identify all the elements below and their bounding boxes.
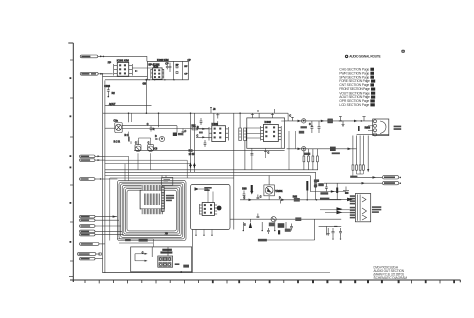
- wire L-in: [98, 56, 147, 62]
- diode D603: [302, 147, 306, 151]
- svg-text:R C: R C: [125, 135, 129, 137]
- capacitor C620: [339, 228, 342, 240]
- capacitor C617: [290, 224, 293, 231]
- bus corner drops: [310, 172, 317, 200]
- arrow on R wire2: [298, 148, 302, 151]
- capacitor C stub 1: [251, 113, 254, 118]
- capacitor C621: [135, 252, 147, 261]
- connector CN201 pin AOUT-L: [80, 55, 101, 58]
- transistor Q612: [343, 187, 349, 195]
- wire audio R out: [287, 148, 357, 150]
- wire lower right: [319, 226, 342, 235]
- jack pins lower: [350, 207, 356, 219]
- capacitor C601: [200, 118, 203, 125]
- label X601: [160, 249, 172, 254]
- capacitor CE2 circle: [148, 145, 158, 170]
- resistor R653 label: [365, 127, 371, 129]
- connector CN603 pin 2: [80, 219, 120, 222]
- label IC601 main: [166, 195, 174, 201]
- capacitor C626: [325, 183, 328, 191]
- op-amp IC602: [247, 121, 285, 148]
- svg-text:C2a: C2a: [114, 120, 119, 123]
- wire CN inner 1: [105, 156, 191, 180]
- svg-text:VR601: VR601: [275, 190, 283, 193]
- arrow on L wire: [298, 120, 302, 123]
- wire audio L out: [285, 120, 373, 122]
- connector CN606: [80, 257, 103, 260]
- resistor ladder RA601: [162, 187, 165, 212]
- bus line C: [105, 169, 318, 171]
- wire box bottom left: [105, 79, 147, 81]
- component cluster mid right: [314, 179, 324, 187]
- label FP: [108, 61, 112, 65]
- resistor bottom stubs: [353, 170, 363, 177]
- wire IC202 down: [145, 80, 147, 113]
- wire to line-out R: [324, 182, 383, 185]
- svg-text:LCD SECTION Page: LCD SECTION Page: [339, 103, 369, 107]
- arrows into jack: [337, 198, 354, 215]
- arrow 3 on L wire: [354, 120, 358, 123]
- capacitor C602: [204, 140, 207, 147]
- ferrite bead FB601: [328, 119, 333, 123]
- capacitor C610 T: [361, 117, 366, 122]
- wires into jack lower: [320, 210, 350, 213]
- svg-text:AOUT: AOUT: [109, 103, 116, 106]
- bold down arrow: [250, 185, 253, 195]
- component CX black: [173, 133, 183, 137]
- diode D601: [155, 136, 165, 141]
- svg-text:CP: CP: [184, 74, 188, 76]
- resistor R622: [295, 217, 301, 221]
- resistor RP1: [176, 64, 180, 68]
- wire audio mid bottom: [134, 149, 285, 151]
- box IC602: [247, 118, 285, 148]
- op-amp IC601: [209, 123, 228, 142]
- capacitor C216: [147, 124, 155, 132]
- connector CN601 RCA jack: [373, 119, 389, 136]
- wire pair top drop: [129, 113, 132, 141]
- capacitor C616: [257, 214, 260, 218]
- arrow in amp box: [195, 187, 214, 202]
- bottom ruler: [70, 280, 461, 282]
- wire drops from bus B: [129, 113, 260, 229]
- capacitor C204: [165, 63, 169, 69]
- diode D612: [278, 230, 280, 234]
- svg-text:RP: RP: [184, 66, 188, 68]
- capacitor C604 T: [216, 113, 219, 126]
- capacitor C stub 2: [271, 113, 274, 118]
- wire drops to resistors: [353, 136, 369, 173]
- bottom label RP601: [125, 238, 148, 241]
- box above IC601: [162, 177, 173, 185]
- resistor R657: [359, 165, 361, 170]
- resistor R655: [352, 165, 354, 170]
- junction nodes hp L: [306, 199, 317, 201]
- box SP-2: [147, 61, 188, 79]
- ground symbol: [327, 228, 330, 236]
- resistor R633: [285, 229, 291, 232]
- connector CN201 pin AOUT-R: [80, 72, 102, 75]
- wire jack bottom: [357, 134, 389, 136]
- wire IC4 drop: [289, 131, 296, 170]
- main box left edge: [103, 80, 105, 273]
- resistor R205: [192, 125, 198, 129]
- diode D602: [302, 119, 306, 123]
- capacitor C608: [318, 121, 321, 133]
- bus line E: [105, 175, 310, 177]
- headphone jack J601: [355, 194, 370, 222]
- hatch labels under diode: [299, 126, 311, 155]
- junction dots bus B: [128, 112, 241, 114]
- crystal oscillator X601: [152, 247, 172, 267]
- label AUDIO OUT: [394, 126, 402, 130]
- legend section list: [339, 67, 375, 107]
- resistor R201: [112, 92, 116, 95]
- RCA pin stubs: [368, 126, 373, 131]
- section box top line: [110, 178, 234, 241]
- capacitor C210: [182, 129, 187, 136]
- resistor R601: [239, 113, 242, 140]
- page mark C: [401, 50, 404, 53]
- capacitor C205: [169, 63, 172, 72]
- connector CN602 pin 2: [80, 159, 105, 162]
- resistor R203: [125, 135, 130, 142]
- nested loop wiring: [117, 181, 186, 241]
- title block: [374, 266, 408, 281]
- wire drop right: [314, 219, 316, 240]
- resistor R602: [244, 128, 247, 170]
- resistor R658: [362, 165, 364, 170]
- hatch resistor: [269, 223, 275, 227]
- bus line B: [103, 113, 289, 121]
- ground: [342, 121, 345, 127]
- power arrows +B: [189, 113, 196, 172]
- capacitor C612: [162, 176, 166, 178]
- connector CN603 pin 4: [80, 230, 123, 233]
- op-amp IC202: [151, 64, 164, 79]
- wire stub: [105, 103, 152, 106]
- connector TO AUDIO R: [383, 181, 402, 184]
- label hatch bottom: [258, 239, 315, 242]
- wire R-in: [98, 73, 112, 75]
- connector CN602 pin 1: [80, 155, 105, 158]
- diode D605: [330, 147, 340, 155]
- svg-text:GB: GB: [143, 82, 147, 85]
- label IC2b: [0, 0, 1, 1]
- resistor network R611-R614: [303, 149, 318, 170]
- ground stubs row: [243, 222, 287, 231]
- polarized mark: [358, 126, 360, 131]
- diode D611: [279, 197, 285, 203]
- op-amp IC201: [114, 60, 133, 77]
- capacitor C203: [104, 85, 110, 98]
- capacitor C614 polarized: [217, 206, 222, 211]
- legend header AUDIO SIGNAL ROUTE: [345, 55, 381, 59]
- wire headphone L: [240, 199, 341, 201]
- labels RC mid: [189, 151, 196, 157]
- transistor Q201: [114, 120, 123, 133]
- arrow hp L: [244, 198, 253, 202]
- box amp block: [191, 185, 231, 236]
- capacitor under box 2: [264, 148, 270, 158]
- bold bar: [306, 181, 308, 200]
- crystal box X601: [131, 247, 192, 272]
- transistor Q611: [271, 217, 276, 222]
- wire R branch down: [102, 73, 103, 113]
- label IC603: [204, 187, 211, 191]
- label above box2: [157, 60, 191, 62]
- bus line D: [105, 171, 316, 173]
- wire into IC3 lower: [196, 135, 209, 138]
- capacitor under box 1: [250, 148, 253, 170]
- wire loops to crystal box: [117, 239, 153, 247]
- svg-text:FP: FP: [108, 61, 112, 65]
- bold up arrow: [249, 219, 252, 228]
- wire headphone R: [230, 218, 341, 220]
- wire lower cross: [103, 76, 148, 78]
- capacitor C623: [267, 228, 270, 234]
- left ruler: [68, 43, 73, 282]
- resistor R621: [293, 196, 300, 201]
- label C622: [175, 263, 189, 267]
- junction dots on box bottom: [148, 79, 174, 80]
- connector CN603 pin 3: [80, 225, 121, 228]
- svg-text:AUDIO SIGNAL ROUTE: AUDIO SIGNAL ROUTE: [349, 55, 381, 59]
- connector CN603 pin 5: [80, 233, 124, 236]
- jack pins upper: [350, 195, 356, 204]
- capacitor C619: [332, 228, 335, 240]
- svg-text:R C R: R C R: [114, 141, 121, 143]
- capacitor C607: [309, 121, 313, 133]
- wire mid row upper: [122, 126, 177, 133]
- capacitor C609: [339, 117, 342, 121]
- wire into jack: [320, 198, 350, 200]
- capacitor CE1 circle: [135, 141, 141, 170]
- amp IC603: [200, 203, 218, 216]
- resistor RP2: [176, 66, 188, 76]
- wire to line-out L: [350, 176, 382, 179]
- svg-text:R21: R21: [192, 125, 197, 127]
- wire mid row lower: [122, 128, 209, 130]
- capacitor C615: [257, 195, 262, 199]
- svg-text:RP: RP: [176, 64, 180, 66]
- svg-text:R63: R63: [242, 189, 247, 191]
- node junction: [165, 234, 182, 273]
- connector CN603 pin 1: [80, 215, 118, 218]
- wire to jack top: [310, 190, 346, 194]
- capacitor C605 T: [289, 115, 293, 121]
- DSP IC601 main: [140, 185, 164, 214]
- svg-text:IC602: IC602: [265, 121, 272, 124]
- stub above bus B: [210, 107, 275, 113]
- node GB: [143, 79, 148, 86]
- component blob: [278, 223, 285, 228]
- connector CN605: [77, 253, 101, 256]
- resistor R631: [242, 189, 247, 200]
- wire IC201 to IC202: [132, 68, 152, 72]
- labels above circles: [114, 141, 150, 144]
- variable resistor VR601: [264, 176, 283, 200]
- bottom ruler ticks: [85, 280, 455, 283]
- label EAR PHONE JACK: [372, 206, 381, 213]
- connector TO AUDIO L: [383, 176, 402, 179]
- resistor R656: [356, 165, 358, 170]
- svg-text:R653: R653: [365, 127, 371, 129]
- connector CN604: [80, 243, 105, 246]
- connector CN602 pin 3: [80, 178, 105, 181]
- arrow 2 on L wire: [321, 120, 325, 123]
- wire into IC3 upper: [196, 127, 209, 134]
- capacitor CE1 top stub: [139, 138, 151, 145]
- main box bottom edge: [103, 230, 330, 273]
- wire mid row in: [105, 127, 115, 129]
- svg-text:SCHEMATIC DIAGRAM: SCHEMATIC DIAGRAM: [374, 276, 408, 280]
- svg-text:R62: R62: [293, 196, 298, 198]
- arrow on R wire: [348, 148, 352, 151]
- node drop jack: [336, 183, 338, 199]
